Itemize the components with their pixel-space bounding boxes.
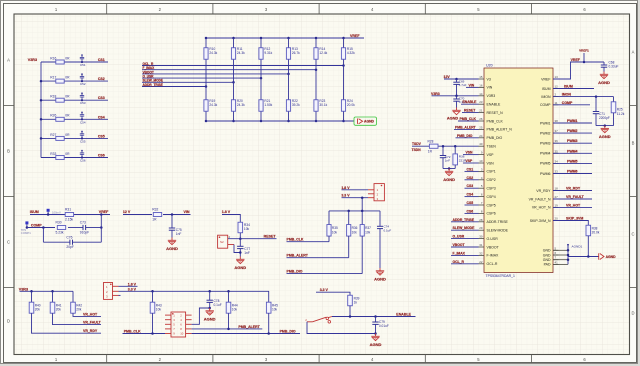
RC row 2: wire, resistor R17, capacitor C52 [40,73,108,86]
wire SKIP_3VM [553,221,588,226]
svg-text:20k: 20k [56,308,62,312]
svg-text:PWM6: PWM6 [540,172,551,176]
net label CS6 (U20) [465,209,479,213]
svg-text:10k: 10k [352,231,358,235]
svg-text:39.2k: 39.2k [292,103,300,107]
svg-text:19: 19 [555,203,559,207]
svg-text:1nF: 1nF [176,232,182,236]
svg-text:VR_FAULT: VR_FAULT [566,195,585,199]
net label IMON (U20) [562,93,572,97]
net label V3R3 (pullups) [19,287,28,291]
net label 3.3V (enable) [320,288,329,292]
svg-text:PWM3: PWM3 [567,139,578,143]
svg-text:1nF: 1nF [445,159,450,163]
svg-text:PWM6: PWM6 [567,170,578,174]
svg-text:10k: 10k [244,227,250,231]
svg-text:R12: R12 [264,47,270,51]
svg-text:CSP2: CSP2 [487,178,496,182]
svg-text:R22: R22 [292,99,298,103]
net label ENABLE [396,312,411,316]
svg-text:CS4: CS4 [98,115,105,119]
svg-text:3.3 V: 3.3 V [341,194,350,198]
net label 1.8V (connector) [128,282,137,286]
resistor R37 10k [360,211,371,236]
net label ADDR_TRISE [143,83,163,87]
svg-text:AGND: AGND [374,276,386,281]
svg-text:IMON: IMON [562,93,572,97]
wire net VBOOT [142,73,290,76]
net label O_USR [143,75,155,79]
RC row 5: wire, resistor R27, capacitor C55 [40,131,108,144]
svg-text:A: A [632,49,635,54]
wire VREF top rail [206,37,364,39]
svg-text:D: D [7,319,10,324]
svg-text:PMB_ALERT: PMB_ALERT [455,125,477,129]
svg-text:CS2: CS2 [467,176,474,180]
wire S2-AGND [234,245,240,253]
svg-text:TPS53647RDAR_1: TPS53647RDAR_1 [486,274,516,278]
resistor R45 10k [266,302,278,333]
svg-text:ENABLE: ENABLE [463,100,478,104]
svg-text:12V: 12V [444,75,451,79]
svg-text:24.3k: 24.3k [237,103,245,107]
svg-text:12 V: 12 V [123,210,131,214]
svg-text:C71: C71 [599,112,605,116]
svg-text:1.8 V: 1.8 V [341,186,350,190]
net label PMB_ALERT [238,325,260,329]
net label TSDN [412,148,422,152]
wire V3R3 pullup rail [20,290,74,293]
svg-text:4.32k: 4.32k [347,51,355,55]
svg-text:0R: 0R [65,95,70,99]
svg-text:14: 14 [479,92,483,96]
wire net ADDR_TRISE [142,85,207,88]
wire 1.8V [222,215,240,223]
wire R30-C73 [68,227,83,229]
svg-text:10: 10 [180,332,184,336]
net label AGND1 [567,244,582,250]
ground AGND (C75) [166,238,178,251]
ground AGND (C78) [204,308,216,321]
net label CS4 [98,115,105,119]
svg-text:AGND: AGND [599,134,611,139]
svg-text:VR_HOT: VR_HOT [566,203,581,207]
wire GND bus [553,245,599,264]
svg-text:0.33uF: 0.33uF [609,64,619,68]
resistor R24 20.0k [341,99,355,122]
svg-text:TSDV: TSDV [412,142,422,146]
net label V3R3 (U20) [431,92,440,96]
net label 12V (U20) [444,75,451,79]
svg-text:R37: R37 [365,226,371,230]
svg-text:21: 21 [479,109,483,113]
net label ENABLE (U20) [461,100,479,104]
svg-text:TSDN: TSDN [412,148,422,152]
net label PMB_CLK (bank) [287,238,304,242]
svg-text:C: C [631,232,634,237]
power port AGND (GND pins) [599,253,616,259]
resistor R41 20k [50,291,101,324]
svg-text:41: 41 [555,260,559,264]
wire ENABLE [332,315,416,318]
net label PWM2 [553,129,592,133]
svg-text:SKIP_3VM: SKIP_3VM [566,217,583,221]
svg-text:O-USR: O-USR [487,237,499,241]
net label CS1 (U20) [465,167,479,171]
svg-text:VIN: VIN [487,86,493,90]
svg-text:PAD: PAD [544,263,551,267]
ground AGND (C68) [598,72,610,85]
svg-text:CS6: CS6 [467,209,474,213]
wire 3.3V stub [316,292,350,295]
ground AGND (IMON) [599,126,611,139]
svg-text:CSP5: CSP5 [487,203,496,207]
net label VBOOT (U20) [451,243,479,247]
svg-text:C76: C76 [66,235,72,239]
svg-text:CSP1: CSP1 [487,170,496,174]
svg-text:PMB_CLK: PMB_CLK [487,119,504,123]
wire TSEN [412,145,479,148]
svg-text:PMB_DIO: PMB_DIO [487,136,503,140]
svg-text:24.3k: 24.3k [209,103,217,107]
net label 1.8V (reset) [222,210,231,214]
svg-text:C55: C55 [80,139,86,143]
svg-text:PMB_ALERT: PMB_ALERT [287,254,309,258]
wire 3.3V rail [119,290,269,302]
svg-text:F_IMAX: F_IMAX [453,251,466,255]
wire 12V to V3 pin [444,78,479,81]
svg-text:100mV: 100mV [52,211,61,215]
svg-text:ISUM: ISUM [564,85,573,89]
svg-text:R17: R17 [50,76,56,80]
svg-text:R33: R33 [50,152,56,156]
svg-text:2.15k: 2.15k [65,217,73,221]
net label 3.3V (bank) [341,194,350,198]
net label VSN [463,151,479,155]
wire COMP [27,226,55,229]
net label VBOOT [143,70,154,74]
resistor R20 24.3k [231,99,245,122]
svg-text:3.3 V: 3.3 V [128,287,137,291]
RC row 6: wire, resistor R33, capacitor C56 [41,150,108,163]
svg-text:PWM3: PWM3 [540,142,551,146]
power port AGND (green highlighted) [354,117,377,125]
wire TSEN gnd [443,167,455,170]
wire V3R3 bus [40,62,42,158]
svg-text:VREF: VREF [571,58,581,62]
svg-text:0.1uF: 0.1uF [384,229,392,233]
svg-text:0R: 0R [65,114,70,118]
net label CS5 (U20) [465,201,479,205]
wire PMB_CLK [123,332,166,335]
net label ADDR_TRISE (U20) [451,218,479,222]
svg-text:24.3k: 24.3k [209,51,217,55]
net label 1.8V (bank) [341,186,350,190]
net label CS3 [98,96,105,100]
svg-text:11.2k: 11.2k [617,112,625,116]
svg-text:36: 36 [555,139,559,143]
svg-text:VBOOT: VBOOT [487,245,500,249]
svg-text:COMP1: COMP1 [21,231,31,235]
net label PMB_DIO [280,329,296,333]
switch S3 enable [305,317,332,324]
svg-text:CS3: CS3 [98,96,105,100]
svg-text:COMP: COMP [562,101,573,105]
svg-text:13: 13 [555,75,559,79]
svg-text:CS5: CS5 [98,134,105,138]
resistor R19 24.3k [204,99,218,122]
net label COMP [31,223,42,227]
svg-text:VSP: VSP [487,153,495,157]
net label CS4 (U20) [465,193,479,197]
svg-text:37: 37 [555,129,559,133]
svg-text:32: 32 [479,251,483,255]
svg-text:24: 24 [479,134,483,138]
svg-text:VREF: VREF [350,34,360,38]
resistor R28 1R [428,139,439,153]
svg-text:CS2: CS2 [98,77,105,81]
svg-text:12: 12 [555,85,559,89]
svg-text:24.3k: 24.3k [237,51,245,55]
net label PMB_ALERT (U20) [454,125,479,129]
svg-text:AGND: AGND [204,316,216,321]
svg-text:R27: R27 [50,133,56,137]
svg-text:CS4: CS4 [467,193,474,197]
svg-text:4.7uF: 4.7uF [459,83,467,87]
svg-text:40: 40 [479,142,483,146]
svg-text:V3R3: V3R3 [487,94,496,98]
svg-text:COMP: COMP [31,223,42,227]
capacitor C72 1nF [440,146,451,168]
svg-text:PMB_ALERT_N: PMB_ALERT_N [487,128,513,132]
svg-text:ENABLE: ENABLE [396,312,411,316]
wire ISUM [30,214,110,216]
svg-text:11: 11 [555,101,558,105]
svg-text:COMP: COMP [540,103,551,107]
svg-text:VR_HOT: VR_HOT [83,312,98,316]
svg-text:V3R3: V3R3 [431,92,440,96]
svg-text:C: C [7,240,10,245]
capacitor C77 1nF [237,239,250,257]
ground AGND (TSEN) [443,169,455,182]
svg-text:R21: R21 [264,99,270,103]
svg-text:AGND: AGND [606,255,617,259]
svg-text:0.01uF: 0.01uF [379,324,389,328]
svg-text:B: B [7,149,10,154]
svg-text:CS1: CS1 [467,167,474,171]
svg-text:ADDR-TRISE: ADDR-TRISE [487,220,509,224]
svg-text:V3R3: V3R3 [28,58,37,62]
net label PWM5 [553,159,592,163]
svg-text:SKIP-3VM_N: SKIP-3VM_N [530,219,551,223]
svg-text:R35: R35 [332,226,338,230]
wire net SLEW_MODE [142,81,235,84]
ground AGND (C77) [234,257,246,270]
wire switch ground loop [307,322,376,334]
svg-text:31: 31 [479,243,483,247]
capacitor C78 0.1uF [207,291,222,309]
resistor R25 11.2k [611,97,625,126]
resistor R36 221R [453,146,467,168]
net label COMP (U20) [553,101,590,105]
resistor R39 1k [348,295,360,316]
svg-text:R19: R19 [209,99,215,103]
svg-text:PWM1: PWM1 [567,119,578,123]
net label PMB_DIO (U20) [456,134,479,138]
svg-text:R10: R10 [209,47,215,51]
svg-text:18: 18 [555,187,559,191]
wire R34-RESET [228,233,277,240]
svg-text:AGND: AGND [234,265,246,270]
net label VREF (array) [350,34,360,38]
svg-text:0R: 0R [65,56,70,60]
net label 12V (filter) [123,210,131,214]
resistor R12 9.31k [259,37,273,99]
RC row 4: wire, resistor R26, capacitor C54 [40,112,108,125]
wire PMB_ALERT bank [287,236,349,258]
svg-text:TSEN: TSEN [487,145,497,149]
svg-text:VIN: VIN [184,210,190,214]
resistor R32 1R [152,208,161,222]
svg-text:30.1k: 30.1k [319,103,327,107]
wire V3R3 to pin [432,95,479,98]
svg-text:VR_HOT_N: VR_HOT_N [532,206,551,210]
svg-text:VBOOT: VBOOT [453,243,466,247]
ground AGND (C74) [374,268,386,281]
svg-text:GND: GND [543,249,551,253]
svg-text:IMON: IMON [541,95,551,99]
capacitor C69 4.7uF [453,79,466,96]
svg-text:OCL-R: OCL-R [487,262,498,266]
capacitor C75 1nF [169,215,182,238]
ground AGND (C70) [447,108,461,121]
net label F_IMAX (U20) [451,251,479,255]
capacitor C74 0.1uF [377,211,391,268]
svg-text:10k: 10k [365,231,371,235]
svg-text:S2: S2 [220,240,224,244]
svg-text:PMB_CLK: PMB_CLK [124,330,141,334]
resistor R11 24.3k [231,37,245,99]
svg-text:R14: R14 [319,47,325,51]
svg-text:VR_FAULT: VR_FAULT [83,321,102,325]
resistor R42 20k [71,291,101,316]
test point ISUM1 [47,209,61,216]
svg-text:C52: C52 [80,82,86,86]
svg-text:C56: C56 [80,159,86,163]
svg-text:VREF1: VREF1 [579,49,589,53]
net label PMB_CLK (U20) [458,117,479,121]
wire IMON [553,95,614,98]
ground AGND (C79) [370,334,382,347]
svg-text:SLEW_MODE: SLEW_MODE [453,226,476,230]
svg-text:0.1uF: 0.1uF [214,303,222,307]
resistor R40 20k [29,291,101,333]
svg-text:R25: R25 [617,108,623,112]
wire PMB_ALERT [192,328,263,331]
net label OCL_R [143,62,155,66]
capacitor C76 20pF [43,228,101,250]
resistor R30 5.23k [56,221,66,235]
svg-text:PMB_DIO: PMB_DIO [457,134,473,138]
net label PWM1 [553,119,592,123]
svg-text:9.31k: 9.31k [264,51,272,55]
svg-text:23: 23 [479,100,483,104]
net label PWM6 [553,170,592,174]
net label RESET (U20) [462,109,479,113]
svg-text:AGND: AGND [166,246,178,251]
svg-text:R23: R23 [319,99,325,103]
svg-text:R20: R20 [237,99,243,103]
net label VIN (U20) [466,83,479,87]
wire PMB_CLK bank [287,236,330,242]
net label RESET [264,235,277,239]
svg-text:AGND1: AGND1 [572,245,583,249]
svg-text:ADDR_TRISE: ADDR_TRISE [143,83,163,87]
net label VSP [463,159,479,163]
svg-text:28: 28 [479,218,483,222]
svg-text:GND: GND [543,258,551,262]
svg-text:CS3: CS3 [467,184,474,188]
svg-text:35: 35 [555,149,559,153]
svg-text:R11: R11 [237,47,243,51]
net label SLEW_MODE (U20) [451,226,479,230]
svg-text:AGND: AGND [598,80,610,85]
power net label V3R3 [28,58,37,62]
power port VREF1 [579,49,589,63]
svg-text:R24: R24 [347,99,353,103]
svg-text:1.8 V: 1.8 V [222,210,231,214]
svg-text:VSN: VSN [487,161,495,165]
svg-text:10k: 10k [232,308,238,312]
svg-text:3.3 V: 3.3 V [320,288,329,292]
net label SLEW_MODE [143,79,164,83]
svg-text:R32: R32 [152,208,158,212]
svg-text:A: A [7,57,10,62]
svg-text:26: 26 [479,117,483,121]
svg-text:25: 25 [479,125,483,129]
net label PWM3 [553,139,592,143]
svg-text:PWM2: PWM2 [540,131,551,135]
svg-text:CS5: CS5 [467,201,474,205]
svg-text:PMB_ALERT: PMB_ALERT [238,325,260,329]
capacitor C70 0.1uF [453,96,466,108]
resistor R34 10k [238,222,250,233]
svg-text:RESET: RESET [464,109,476,113]
svg-text:PWM4: PWM4 [567,149,578,153]
svg-text:VR_RDY: VR_RDY [536,189,551,193]
svg-text:20.0k: 20.0k [347,103,355,107]
svg-text:1R: 1R [428,150,433,154]
svg-text:20k: 20k [76,308,82,312]
svg-text:PWM5: PWM5 [567,159,578,163]
net label PMB_DIO (bank) [287,270,303,274]
wire R32-VIN [163,213,191,216]
svg-text:34: 34 [555,159,559,163]
net label VR_HOT [83,312,98,316]
resistor R14 12.4k [314,37,328,99]
svg-text:VR_RDY: VR_RDY [83,329,98,333]
RC row 1: wire, resistor R16, capacitor C51 [41,54,108,67]
svg-text:ADDR_TRISE: ADDR_TRISE [453,218,475,222]
svg-text:D: D [631,311,634,316]
net label VIN (filter) [184,210,190,214]
svg-text:0R: 0R [65,152,70,156]
wire net F_IMAX [142,68,317,71]
svg-text:VIN: VIN [469,83,475,87]
net label PWM4 [553,149,592,153]
svg-text:AGND: AGND [370,342,382,347]
net label CS5 [98,134,105,138]
